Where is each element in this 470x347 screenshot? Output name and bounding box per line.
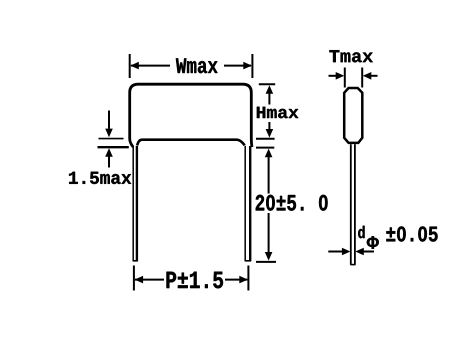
Tmax right arrowhead (pointing left) [363,72,372,80]
left lead [132,147,134,262]
P±1.5 right arrowhead [239,276,248,284]
Hmax top extension bar [259,83,275,85]
Tmax left arrowhead (pointing right) [336,72,345,80]
20±5.0 top arrow [265,149,273,158]
Wmax left arrowhead [130,62,139,70]
capacitor body bottom edge with lead fillets [137,140,245,146]
capacitor body front view outline [130,84,252,147]
Hmax bottom extension bar (body bottom edge) [256,138,275,140]
1.5max lower bar (lead exit level) [98,146,129,148]
P±1.5 dimension line [135,279,247,281]
1.5max upper arrow [108,111,110,129]
side view lead [350,144,352,265]
label d [358,226,364,238]
label Wmax [176,58,218,73]
20±5.0 top extension bar [256,147,274,149]
Tmax dimension right arm [371,75,378,77]
P±1.5 left arrowhead [135,276,144,284]
lead diameter left arrow (pointing right) [328,251,343,253]
Wmax right arrowhead [243,62,252,70]
label 1.5max [69,172,131,184]
Hmax lower arrow [268,122,270,129]
right lead [244,146,246,261]
Tmax extension bar right [361,68,363,88]
1.5max lower arrow [105,148,113,157]
Wmax extension line right [251,54,253,78]
label phi [367,236,379,248]
lead diameter right arrow (pointing left) [355,248,364,256]
1.5max upper bar (body bottom level) [99,138,124,140]
label ±0.05 [386,226,437,241]
label P±1.5 [167,272,224,289]
20±5.0 bottom extension bar (lead end level) [256,261,276,263]
P±1.5 extension line left [133,266,135,291]
Tmax extension bar left [344,68,346,88]
Wmax dimension line [131,65,251,67]
Tmax dimension left arm [329,75,337,77]
20±5.0 bottom arrow [268,213,270,253]
Hmax upper arrow [266,85,274,94]
P±1.5 extension line right [247,266,249,291]
Wmax extension line left [129,54,131,78]
label Hmax [257,107,299,118]
capacitor body side view outline [344,88,362,143]
label 20±5.0 [256,195,328,211]
label Tmax [329,50,372,62]
